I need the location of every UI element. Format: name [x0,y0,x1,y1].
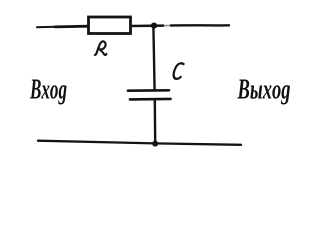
svg-text:Bыxog: Bыxog [237,73,291,105]
svg-text:Bxog: Bxog [29,73,67,105]
